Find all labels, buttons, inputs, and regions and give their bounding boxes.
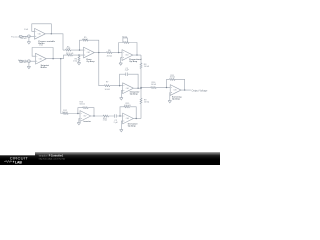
ground R4 bbox=[77, 63, 80, 65]
svg-text:1 kΩ: 1 kΩ bbox=[103, 120, 108, 122]
flag Process Variable In bbox=[20, 35, 23, 37]
svg-text:500 Ω: 500 Ω bbox=[62, 112, 68, 114]
voltage source V1 process variable bbox=[28, 35, 31, 38]
wire derivative feedback loop bbox=[120, 107, 136, 119]
label Proportional Op Amp bbox=[129, 58, 142, 63]
label Summing Op Amp bbox=[172, 96, 182, 100]
svg-text:LAB: LAB bbox=[15, 160, 23, 164]
node inverter minus bbox=[77, 113, 78, 114]
wire summer output bbox=[181, 89, 191, 91]
op-amp OA4 proportional bbox=[122, 50, 133, 61]
op-amp OA1 process variable buffer bbox=[35, 28, 46, 39]
wire error drop to integrator row bbox=[99, 53, 123, 86]
svg-text:10 kΩ: 10 kΩ bbox=[144, 102, 150, 104]
wire OA1 output to VA drop bbox=[45, 34, 63, 50]
svg-text:OA2: OA2 bbox=[39, 57, 42, 60]
node summer out bbox=[184, 89, 185, 90]
wire integrator plus to ground bbox=[121, 91, 122, 98]
svg-text:R2 1 kΩ: R2 1 kΩ bbox=[66, 53, 74, 55]
svg-text:10 kΩ: 10 kΩ bbox=[170, 77, 176, 79]
svg-text:500 Ω: 500 Ω bbox=[80, 104, 86, 106]
capacitor C1 integrator feedback bbox=[125, 72, 128, 76]
svg-text:10 kΩ: 10 kΩ bbox=[151, 84, 157, 86]
resistor R11 summer feedback bbox=[169, 78, 175, 80]
svg-text:500 mV: 500 mV bbox=[20, 62, 27, 64]
node P out bbox=[136, 54, 137, 55]
svg-text:Op Amp: Op Amp bbox=[130, 92, 139, 95]
node bus I tap bbox=[140, 88, 141, 89]
ground derivative plus bbox=[120, 130, 123, 132]
op-amp OA7 inverter bbox=[80, 111, 91, 122]
node inverter out bbox=[93, 115, 94, 116]
wire summing bus vertical bbox=[140, 55, 142, 118]
ground V2 bbox=[27, 66, 30, 68]
label OA1 name bbox=[38, 40, 55, 45]
ground V1 bbox=[27, 42, 30, 44]
svg-text:Output Voltage: Output Voltage bbox=[192, 90, 208, 93]
wire OA2 feedback box bbox=[32, 48, 53, 59]
resistor R13 inverter feedback bbox=[83, 107, 89, 109]
wire inverter plus to ground bbox=[79, 119, 80, 123]
footer logo bolt bbox=[13, 160, 15, 163]
wire R4 junction down bbox=[78, 55, 80, 63]
svg-text:1 kΩ: 1 kΩ bbox=[66, 48, 71, 50]
svg-text:Buffer: Buffer bbox=[41, 66, 47, 69]
wire OA3 output row to P stage bbox=[94, 52, 122, 54]
svg-text:OA6: OA6 bbox=[173, 89, 176, 92]
label Derivative Op Amp bbox=[128, 123, 139, 128]
footer logo white notch bbox=[0, 152, 35, 155]
wire P output to bus bbox=[133, 54, 141, 56]
ground integrator plus bbox=[120, 98, 123, 100]
footer bar bbox=[0, 152, 220, 165]
resistor R6 error out to P bbox=[106, 52, 112, 54]
ground inverter plus bbox=[77, 123, 80, 125]
wire integrator output to bus bbox=[133, 87, 141, 89]
svg-text:100 kΩ: 100 kΩ bbox=[124, 105, 131, 107]
svg-text:10 kΩ: 10 kΩ bbox=[104, 89, 110, 91]
wire P pot box bbox=[123, 38, 128, 43]
wire OA3 feedback box bbox=[80, 40, 99, 52]
wire OA2 source stub to ground bbox=[28, 63, 30, 67]
svg-text:20 kΩ: 20 kΩ bbox=[83, 39, 89, 41]
wire integrator feedback box bbox=[120, 74, 139, 88]
svg-text:ianpdux / P Controller1: ianpdux / P Controller1 bbox=[39, 154, 64, 157]
svg-text:500 mV: 500 mV bbox=[20, 38, 27, 40]
flag Setpoint In bbox=[20, 60, 23, 62]
wire VB setpoint drop to inverter bbox=[61, 59, 80, 114]
svg-text:OA8: OA8 bbox=[126, 117, 129, 120]
svg-text:50 kΩ: 50 kΩ bbox=[122, 36, 128, 38]
resistor R15 derivative feedback bbox=[124, 106, 130, 108]
label Error Op Amp bbox=[87, 58, 96, 63]
wire OA1 feedback box bbox=[32, 24, 52, 34]
svg-text:40 kΩ: 40 kΩ bbox=[107, 55, 113, 57]
svg-text:Inverter: Inverter bbox=[83, 120, 91, 123]
resistor R14 derivative input bbox=[103, 115, 109, 117]
svg-text:OA3: OA3 bbox=[87, 51, 90, 54]
node integrator minus bbox=[119, 85, 120, 86]
resistor R12 inverter input bbox=[63, 112, 69, 114]
wire P feedback loop bbox=[119, 43, 137, 56]
ground summer plus bbox=[168, 101, 171, 103]
op-amp OA6 summer bbox=[170, 85, 181, 96]
svg-text:10 kΩ: 10 kΩ bbox=[144, 66, 150, 68]
resistor R2 row2 bbox=[67, 54, 73, 56]
node OA1 out bbox=[51, 33, 52, 34]
wire OA1 source stub to ground bbox=[28, 38, 30, 42]
resistor R1 row1 bbox=[65, 49, 71, 51]
wire OA2 plus input row bbox=[23, 60, 36, 62]
svg-text:Op Amp: Op Amp bbox=[128, 125, 137, 128]
wire OA2 output row and jog to row2 bbox=[46, 55, 83, 59]
svg-text:OA4: OA4 bbox=[125, 54, 128, 57]
svg-text:1 kΩ: 1 kΩ bbox=[73, 60, 78, 62]
node summer fb tap bbox=[166, 87, 167, 88]
wire OA1 plus input row bbox=[23, 35, 35, 37]
resistor pot P feedback bbox=[123, 41, 129, 43]
resistor R7 integrator input bbox=[104, 85, 110, 87]
wire derivative output to bus bbox=[133, 118, 141, 120]
svg-text:OA7: OA7 bbox=[83, 115, 86, 118]
wire inverter feedback loop bbox=[78, 108, 94, 116]
op-amp OA3 error amp bbox=[84, 47, 95, 58]
node bus summer tap bbox=[140, 87, 141, 88]
voltage source V2 setpoint bbox=[28, 60, 31, 63]
wire derivative plus to ground bbox=[121, 121, 122, 130]
wire inverter output to derivative input bbox=[91, 115, 123, 117]
resistor R4 vertical to ground bbox=[78, 56, 80, 62]
op-amp OA5 integral bbox=[123, 83, 134, 94]
capacitor C2 derivative series bbox=[114, 114, 118, 118]
op-amp OA8 derivative bbox=[123, 113, 134, 124]
svg-text:OA1: OA1 bbox=[38, 32, 41, 35]
node integrator out bbox=[137, 88, 138, 89]
wire summer input row bbox=[141, 87, 170, 89]
wire P plus to ground bbox=[121, 58, 122, 63]
resistor R10 summer input bbox=[151, 87, 157, 89]
svg-text:1 kΩ: 1 kΩ bbox=[39, 45, 44, 47]
node derivative out bbox=[136, 118, 137, 119]
footer logo zigzag bbox=[4, 161, 12, 163]
resistor R8 bus vertical bbox=[140, 63, 142, 69]
junction dots bbox=[51, 33, 186, 119]
node row1 fb tap bbox=[79, 49, 80, 50]
ground P plus bbox=[119, 63, 122, 65]
resistor R9 bus vertical bbox=[140, 98, 142, 104]
node P minus bbox=[118, 52, 119, 53]
node derivative minus bbox=[119, 115, 120, 116]
svg-text:http://circuitlab.com/c/7a7sbr: http://circuitlab.com/c/7a7sbr bbox=[39, 158, 66, 161]
wire summer plus to ground bbox=[169, 93, 171, 101]
node VB tap bbox=[60, 58, 61, 59]
wire row1 error minus network bbox=[63, 49, 84, 51]
label Inverter bbox=[83, 120, 91, 123]
wire summer feedback loop bbox=[167, 79, 185, 90]
op-amp OA2 setpoint buffer bbox=[36, 53, 47, 64]
svg-text:Op Amp: Op Amp bbox=[172, 98, 181, 101]
svg-text:OA5: OA5 bbox=[126, 87, 129, 90]
label OA2 name bbox=[41, 64, 50, 69]
node R4 tap bbox=[78, 54, 79, 55]
svg-text:Op Amp: Op Amp bbox=[129, 60, 138, 63]
svg-text:Op Amp: Op Amp bbox=[87, 60, 96, 63]
resistor R5 error feedback 20k bbox=[82, 39, 88, 41]
label Integral Op Amp bbox=[130, 90, 140, 95]
node error out bbox=[98, 52, 99, 53]
svg-text:1 kΩ: 1 kΩ bbox=[24, 29, 29, 31]
node OA2 out fb bbox=[52, 58, 53, 59]
